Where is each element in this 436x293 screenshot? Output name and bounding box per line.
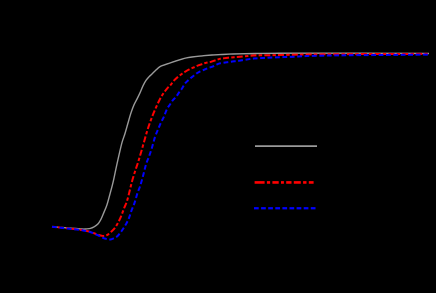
legend sample: gray solid line xyxy=(255,145,317,147)
legend sample: blue dashed line xyxy=(254,207,316,209)
red dashed curve (series 2) xyxy=(52,54,429,236)
blue dashed curve (series 3) xyxy=(52,55,429,240)
gray solid curve (series 1) xyxy=(52,53,429,229)
legend sample: red dashed line xyxy=(255,181,316,184)
